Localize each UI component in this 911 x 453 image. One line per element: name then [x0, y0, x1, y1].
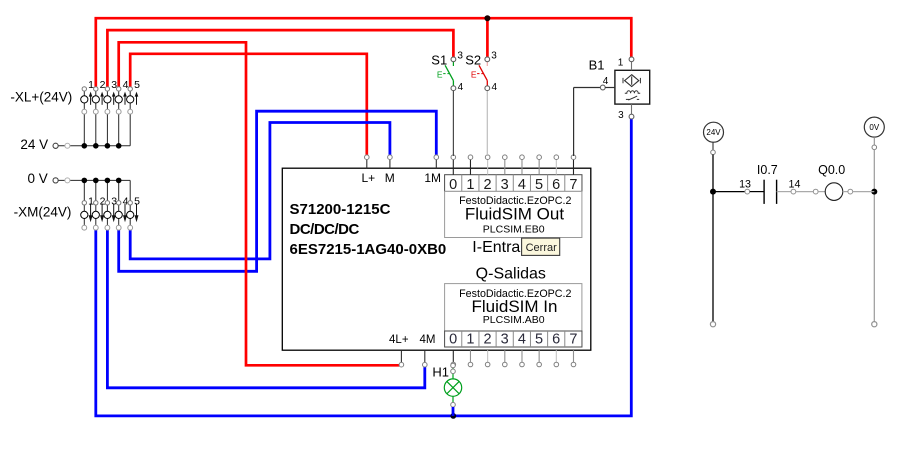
svg-text:I0.7: I0.7 — [757, 163, 778, 177]
svg-text:3: 3 — [457, 50, 463, 61]
svg-text:E: E — [471, 69, 477, 79]
svg-text:PLCSIM.AB0: PLCSIM.AB0 — [483, 314, 545, 326]
svg-text:Cerrar: Cerrar — [526, 242, 558, 254]
svg-text:5: 5 — [134, 79, 140, 91]
svg-text:Q0.0: Q0.0 — [818, 163, 845, 177]
svg-text:DC/DC/DC: DC/DC/DC — [290, 221, 360, 238]
svg-text:6: 6 — [552, 332, 560, 348]
svg-text:1M: 1M — [424, 171, 441, 185]
svg-text:1: 1 — [466, 177, 474, 193]
svg-text:0: 0 — [449, 332, 457, 348]
svg-text:2: 2 — [100, 196, 106, 208]
svg-text:4: 4 — [603, 76, 609, 87]
svg-text:1: 1 — [466, 332, 474, 348]
svg-text:1: 1 — [88, 196, 94, 208]
svg-text:B1: B1 — [589, 58, 605, 73]
svg-text:5: 5 — [535, 177, 543, 193]
svg-text:3: 3 — [618, 110, 624, 121]
svg-text:6ES7215-1AG40-0XB0: 6ES7215-1AG40-0XB0 — [290, 241, 447, 258]
svg-text:3: 3 — [491, 50, 497, 61]
svg-text:1: 1 — [618, 58, 624, 69]
svg-text:FluidSIM Out: FluidSIM Out — [465, 205, 564, 224]
svg-text:E: E — [437, 69, 443, 79]
svg-text:3: 3 — [501, 177, 509, 193]
svg-text:5: 5 — [535, 332, 543, 348]
svg-text:7: 7 — [569, 332, 577, 348]
svg-text:M: M — [385, 171, 395, 185]
svg-text:S71200-1215C: S71200-1215C — [290, 201, 391, 218]
svg-text:24 V: 24 V — [20, 137, 48, 152]
svg-text:7: 7 — [569, 177, 577, 193]
svg-text:4: 4 — [518, 177, 526, 193]
svg-text:24V: 24V — [706, 128, 721, 137]
svg-text:4M: 4M — [420, 334, 436, 346]
svg-text:-XL+(24V): -XL+(24V) — [10, 89, 72, 104]
svg-text:I-Entra: I-Entra — [472, 239, 520, 256]
svg-text:2: 2 — [483, 177, 491, 193]
svg-text:S2: S2 — [465, 53, 481, 68]
svg-text:0: 0 — [449, 177, 457, 193]
svg-text:5: 5 — [134, 196, 140, 208]
svg-text:S1: S1 — [431, 53, 447, 68]
svg-text:Q-Salidas: Q-Salidas — [476, 266, 546, 283]
svg-text:13: 13 — [739, 178, 751, 190]
svg-text:6: 6 — [552, 177, 560, 193]
svg-text:2: 2 — [483, 332, 491, 348]
svg-text:0 V: 0 V — [28, 171, 48, 186]
svg-text:H1: H1 — [432, 365, 449, 380]
svg-text:4: 4 — [518, 332, 526, 348]
svg-text:3: 3 — [501, 332, 509, 348]
svg-text:4: 4 — [492, 82, 498, 93]
svg-text:4L+: 4L+ — [389, 334, 409, 346]
svg-text:PLCSIM.EB0: PLCSIM.EB0 — [483, 224, 545, 236]
svg-text:4: 4 — [123, 196, 129, 208]
svg-text:14: 14 — [789, 178, 801, 190]
svg-text:0V: 0V — [869, 123, 879, 132]
svg-text:-XM(24V): -XM(24V) — [14, 205, 72, 220]
svg-text:L+: L+ — [361, 171, 375, 185]
svg-text:4: 4 — [458, 82, 464, 93]
